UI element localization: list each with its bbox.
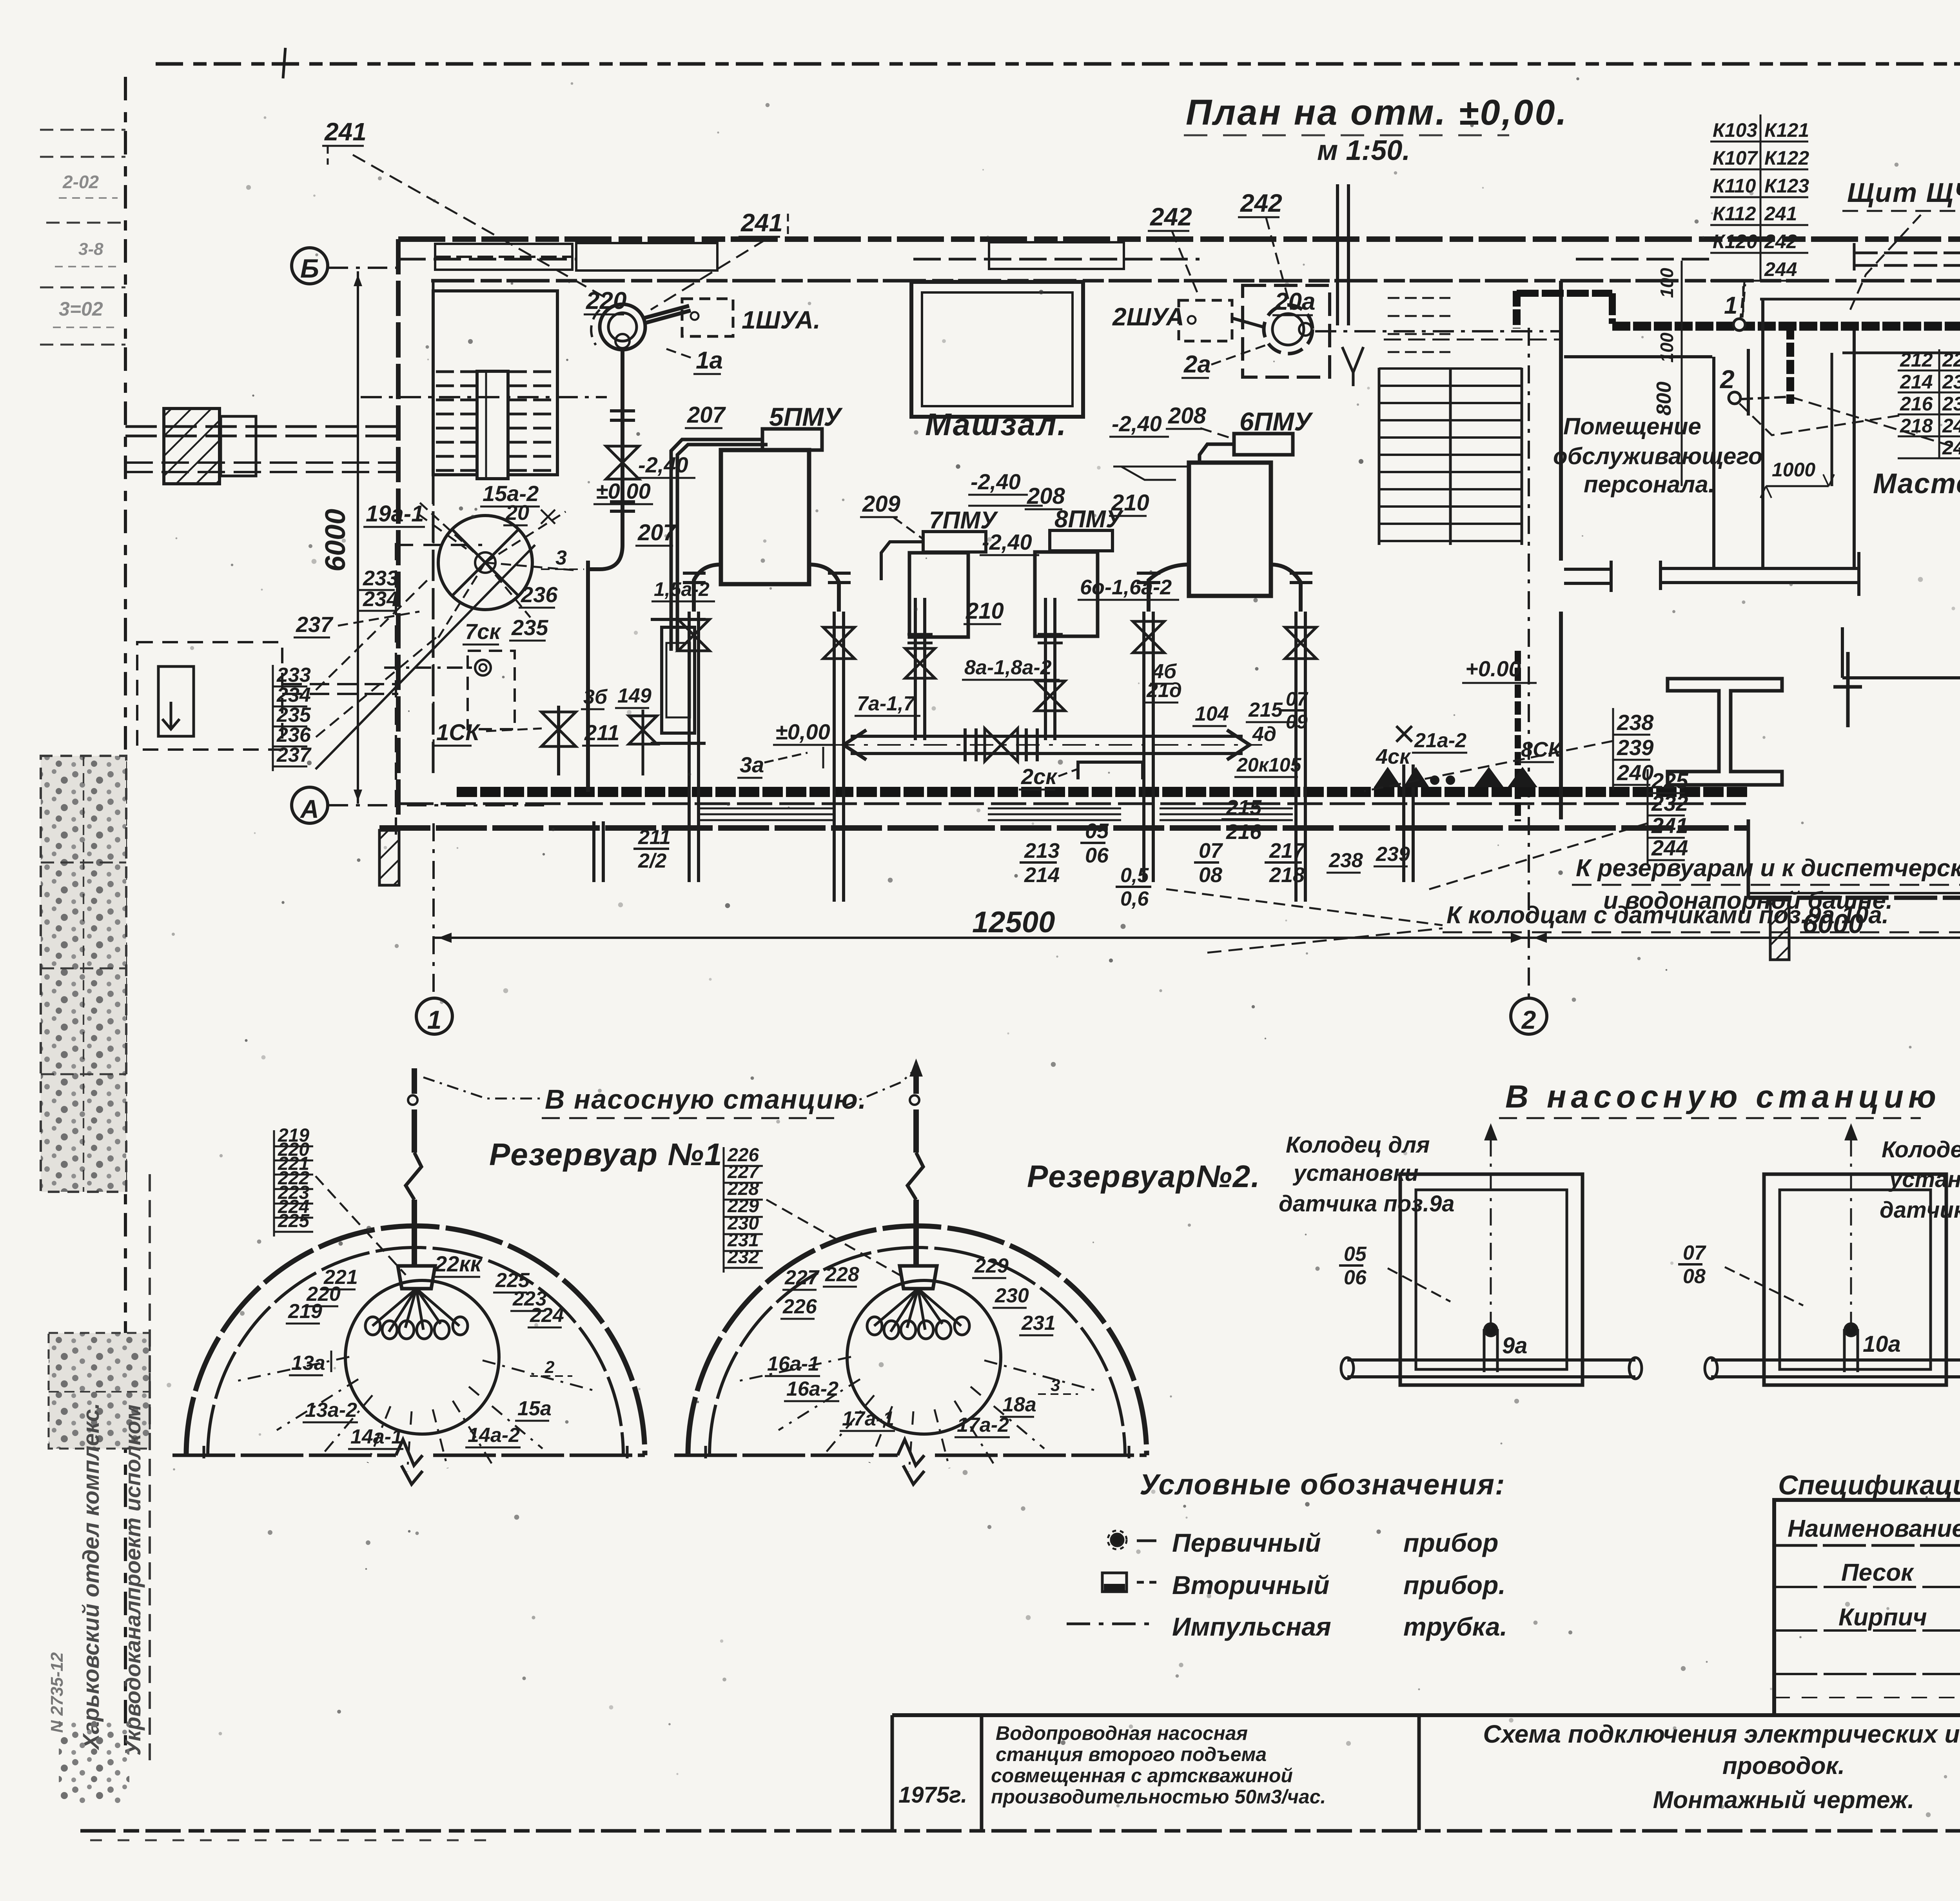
svg-text:2а: 2а: [1183, 351, 1211, 378]
pump5 discharge pipe: [671, 439, 762, 651]
reservoir outer shell arc: [186, 1226, 645, 1455]
manifold center line: [831, 744, 1262, 746]
svg-text:207: 207: [637, 520, 677, 545]
svg-text:3б: 3б: [583, 686, 608, 708]
reservoir outer shell arc: [688, 1226, 1147, 1455]
svg-text:прибор: прибор: [1403, 1528, 1498, 1557]
radial leaders from well: [417, 500, 485, 563]
svg-text:239: 239: [1376, 843, 1410, 866]
window room top-left: [433, 291, 557, 475]
leader junction1 to stack: [1742, 284, 1745, 318]
svg-text:Условные обозначения:: Условные обозначения:: [1140, 1468, 1506, 1501]
svg-text:А: А: [299, 794, 319, 823]
leader from 219 stack to hub: [316, 1176, 406, 1275]
solid leader to well circle: [316, 545, 535, 769]
column footings below walls right section: [1770, 900, 1789, 960]
workshop bottom wall: [1842, 676, 1960, 679]
pump8 riser to manifold: [1044, 598, 1047, 740]
radial impulse lines: [738, 1357, 851, 1381]
pump6 drain pipes down: [1142, 612, 1145, 882]
workshop window lines top right: [1854, 252, 1960, 254]
cable channel from skylight corner: [1520, 291, 1960, 325]
wall left interior: [432, 281, 435, 775]
svg-text:Песок: Песок: [1841, 1559, 1914, 1586]
valve 21а-2 cross: [1396, 726, 1412, 742]
sensor hub circle: [847, 1280, 1001, 1434]
svg-text:12500: 12500: [972, 906, 1055, 939]
svg-text:06: 06: [1085, 844, 1109, 867]
svg-text:±0,00: ±0,00: [596, 479, 651, 503]
svg-text:В насосную станцию.: В насосную станцию.: [545, 1084, 867, 1115]
svg-text:-2,40: -2,40: [971, 469, 1021, 494]
window sills bottom wall: [700, 808, 833, 810]
window bay bars top-left: [435, 244, 572, 270]
svg-text:2ШУА: 2ШУА: [1112, 303, 1184, 331]
svg-text:214: 214: [1900, 371, 1933, 393]
svg-text:4ск: 4ск: [1376, 745, 1411, 768]
pump 1a valve: [606, 446, 639, 479]
svg-text:Машзал.: Машзал.: [925, 407, 1067, 442]
arrow symbol in lower chamber: [162, 702, 180, 729]
svg-text:13а: 13а: [291, 1352, 325, 1374]
leader 225 stack: [1427, 823, 1648, 890]
svg-text:20к105: 20к105: [1236, 754, 1302, 776]
axis line 2: [1528, 328, 1530, 997]
svg-text:К120: К120: [1713, 231, 1757, 252]
svg-text:Монтажный чертеж.: Монтажный чертеж.: [1653, 1787, 1914, 1814]
pump6 discharge pipe: [1200, 444, 1234, 463]
well inner square: [1780, 1190, 1931, 1369]
right section upper room wall: [1842, 352, 1960, 354]
reservoir2 riser arrowhead: [909, 1059, 923, 1077]
well axis line with arrow: [1850, 1129, 1852, 1329]
well riser detail: [1483, 1329, 1486, 1372]
funnel below vent pipe: [1342, 347, 1363, 372]
svg-text:1СК: 1СК: [436, 720, 481, 745]
svg-text:21д: 21д: [1146, 679, 1182, 702]
svg-text:1а: 1а: [696, 347, 723, 374]
svg-text:Колодец для: Колодец для: [1882, 1137, 1960, 1162]
pump5 drain pipes down: [688, 612, 691, 882]
svg-text:208: 208: [1027, 483, 1065, 509]
wall top middle line: [398, 258, 576, 261]
svg-text:совмещенная с артскважиной: совмещенная с артскважиной: [991, 1765, 1293, 1787]
symbol 2ск bracket: [1078, 762, 1143, 779]
wall at 4497: [1761, 299, 1764, 568]
svg-text:14а-2: 14а-2: [468, 1424, 520, 1447]
svg-text:242: 242: [1764, 231, 1797, 252]
reservoir base chord: [674, 1454, 898, 1457]
pump unit 8 body: [1035, 552, 1098, 636]
legend secondary device symbol: [1102, 1573, 1127, 1592]
svg-text:+0.00: +0.00: [1465, 656, 1521, 681]
svg-text:16а-1: 16а-1: [767, 1353, 819, 1375]
cross wall near workshop: [1846, 652, 1850, 727]
svg-text:09: 09: [1286, 711, 1308, 733]
box 7ПМУ: [923, 532, 986, 552]
pump 2a housing rect 20a: [1243, 285, 1330, 377]
svg-text:Резервуар №1: Резервуар №1: [489, 1137, 722, 1172]
page frame top border: [156, 62, 1960, 66]
svg-text:232: 232: [1942, 371, 1960, 393]
radial impulse lines: [236, 1357, 349, 1381]
svg-text:Мастерская: Мастерская: [1873, 468, 1960, 499]
pump7 riser to manifold: [914, 598, 917, 740]
chord end ticks: [704, 1446, 707, 1458]
svg-text:07: 07: [1199, 839, 1223, 862]
svg-text:235: 235: [511, 615, 548, 640]
axis circle А: [292, 787, 328, 823]
svg-text:224: 224: [530, 1304, 564, 1327]
leaders from 233 stack: [316, 580, 427, 690]
svg-text:05: 05: [1344, 1243, 1367, 1266]
primary sensor circles: [365, 1317, 380, 1335]
page frame bottom border: [80, 1829, 1960, 1833]
pump 1a riser pipe: [621, 350, 624, 545]
svg-text:228: 228: [825, 1263, 859, 1286]
1СК dashed box: [468, 651, 515, 729]
page frame left border: [124, 77, 127, 1752]
svg-text:800: 800: [1653, 381, 1675, 416]
staff room bottom wall right segment: [1661, 567, 1859, 570]
svg-text:07: 07: [1286, 688, 1308, 710]
inlet pipes upper: [125, 425, 398, 428]
valve 1СК: [541, 712, 576, 746]
svg-text:225: 225: [1651, 768, 1688, 793]
staff room top wall: [1564, 355, 1712, 358]
svg-text:Первичный: Первичный: [1172, 1528, 1321, 1557]
chord break zigzag: [898, 1440, 924, 1484]
svg-text:9а: 9а: [1502, 1333, 1528, 1358]
svg-text:214: 214: [1024, 863, 1060, 887]
leader to res1 riser: [423, 1077, 543, 1098]
svg-text:трубка.: трубка.: [1403, 1612, 1507, 1641]
svg-text:Колодец для: Колодец для: [1286, 1132, 1430, 1158]
axis line 1: [432, 823, 435, 997]
svg-text:07: 07: [1683, 1242, 1706, 1264]
svg-text:149: 149: [617, 685, 652, 707]
svg-text:К121: К121: [1764, 119, 1809, 141]
inlet stub pipes to building: [282, 683, 398, 685]
drain pipe pair at 3593: [1402, 764, 1405, 882]
svg-text:243: 243: [1942, 437, 1960, 459]
overall dimension line 12500: [434, 937, 1529, 939]
svg-text:05: 05: [1085, 819, 1109, 843]
svg-text:239: 239: [1617, 735, 1653, 760]
svg-text:210: 210: [1111, 490, 1149, 516]
page frame tick at top left: [283, 48, 285, 78]
riser top circle: [910, 1095, 919, 1105]
svg-text:станция второго подъема: станция второго подъема: [996, 1743, 1267, 1765]
svg-text:Кирпич: Кирпич: [1838, 1604, 1927, 1631]
svg-text:Харьковский отдел комплекс.: Харьковский отдел комплекс.: [78, 1403, 104, 1750]
riser top circle: [408, 1095, 417, 1105]
svg-text:210: 210: [965, 598, 1004, 624]
svg-text:218: 218: [1900, 415, 1933, 437]
svg-text:215: 215: [1226, 796, 1262, 819]
svg-text:231: 231: [1021, 1312, 1056, 1335]
svg-text:18а: 18а: [1002, 1393, 1036, 1416]
svg-text:21а-2: 21а-2: [1414, 729, 1466, 752]
svg-text:242: 242: [1150, 203, 1192, 231]
primary device dots: [1430, 775, 1439, 785]
pump 1a flanges: [610, 409, 635, 412]
dark partition at 3872: [1515, 651, 1521, 821]
workshop left wall stub: [1747, 349, 1750, 416]
pump 1a lower flanges: [610, 500, 635, 503]
riser pipe: [412, 1200, 417, 1266]
svg-text:2: 2: [1521, 1005, 1536, 1034]
svg-text:К123: К123: [1764, 175, 1809, 197]
svg-text:212: 212: [1900, 349, 1933, 371]
box 6ПМУ: [1234, 434, 1293, 455]
svg-text:240: 240: [1942, 415, 1960, 437]
pump 1a leader to box: [643, 306, 689, 318]
svg-text:7а-1,7: 7а-1,7: [857, 692, 916, 715]
hub box: [398, 1266, 435, 1289]
svg-text:Наименование: Наименование: [1788, 1515, 1960, 1542]
svg-text:3а: 3а: [740, 752, 764, 777]
svg-text:Б: Б: [300, 254, 319, 283]
corridor wall vertical: [1853, 328, 1856, 568]
svg-text:226: 226: [782, 1295, 817, 1318]
svg-text:227: 227: [784, 1266, 820, 1289]
vent shaft in window room: [477, 371, 508, 479]
riser break symbol: [406, 1153, 421, 1200]
hub box: [900, 1266, 937, 1289]
svg-text:236: 236: [521, 582, 558, 607]
axis leader from А: [328, 804, 547, 806]
svg-text:100: 100: [1657, 268, 1677, 298]
second small valve: [629, 716, 657, 744]
svg-text:2/2: 2/2: [638, 850, 666, 872]
svg-text:100: 100: [1657, 332, 1677, 363]
leader from 212 stack: [1737, 401, 1899, 435]
reservoir inner shell arc: [208, 1247, 623, 1455]
svg-text:установки: установки: [1292, 1160, 1419, 1186]
staircase upper flight: [1388, 297, 1450, 299]
svg-text:Укрводоканалпроект исполком: Укрводоканалпроект исполком: [120, 1405, 145, 1756]
riser pipe: [913, 1200, 919, 1266]
footing left wall corner: [379, 830, 399, 885]
staff room right wall: [1712, 357, 1715, 568]
pump unit 6 body: [1189, 463, 1271, 596]
svg-text:229: 229: [974, 1255, 1009, 1277]
well riser detail: [1843, 1329, 1846, 1372]
chord break zigzag: [396, 1440, 423, 1484]
riser break symbol: [907, 1153, 923, 1200]
svg-text:218: 218: [1269, 863, 1305, 887]
svg-text:производительностью 50м3/час.: производительностью 50м3/час.: [991, 1786, 1326, 1808]
leader from 226 stack to hub2: [766, 1200, 902, 1276]
svg-text:14а-1: 14а-1: [350, 1425, 403, 1448]
well outer square: [1764, 1174, 1946, 1385]
svg-text:2: 2: [1719, 365, 1735, 394]
spec table row lines: [1774, 1586, 1960, 1588]
svg-text:215: 215: [1248, 699, 1283, 721]
dark vertical channel near 4567: [1786, 325, 1794, 404]
leader 241 to pump: [353, 155, 610, 300]
pump unit 5 body: [721, 450, 809, 584]
legend primary device text: [1137, 1540, 1156, 1542]
manifold flanges: [964, 728, 967, 761]
svg-text:0,5: 0,5: [1120, 864, 1149, 887]
svg-text:242: 242: [1240, 189, 1282, 217]
axis1 line inside building: [433, 325, 435, 772]
staff room bottom wall left segment: [1564, 568, 1611, 571]
svg-text:В насосную станцию: В насосную станцию: [1505, 1079, 1941, 1115]
svg-text:211: 211: [584, 720, 619, 745]
axis circle Б: [292, 248, 328, 284]
svg-text:К107: К107: [1713, 147, 1758, 169]
svg-text:7ск: 7ск: [465, 619, 501, 644]
svg-text:219: 219: [288, 1300, 322, 1323]
svg-text:Схема подключения электрически: Схема подключения электрических и трубны…: [1483, 1720, 1960, 1748]
corridor line right section: [1760, 298, 1960, 301]
title block frame: [892, 1713, 1960, 1717]
inlet hatch block: [164, 409, 220, 484]
svg-text:6о-1,6а-2: 6о-1,6а-2: [1080, 576, 1172, 599]
overall dimension line 6000 right: [1529, 937, 1960, 939]
svg-text:104: 104: [1195, 703, 1229, 725]
svg-text:13а-2: 13а-2: [305, 1399, 357, 1422]
svg-text:0,6: 0,6: [1120, 888, 1149, 910]
svg-text:238: 238: [1617, 710, 1654, 735]
svg-text:-2,40: -2,40: [1112, 411, 1162, 436]
svg-text:208: 208: [1168, 403, 1207, 428]
floor channel dark band: [457, 787, 1748, 797]
svg-text:К103: К103: [1713, 119, 1757, 141]
valve below pump5 left: [678, 619, 710, 651]
svg-text:233: 233: [363, 566, 398, 590]
valves below pump6: [1133, 621, 1164, 653]
machine hall skylight rect: [911, 282, 1083, 417]
primary sensor circles: [867, 1317, 882, 1335]
window bay rect above wall left: [576, 243, 717, 271]
svg-text:К колодцам с датчиками поз.9а,: К колодцам с датчиками поз.9а,10а.: [1446, 902, 1889, 929]
svg-text:08: 08: [1683, 1265, 1706, 1288]
svg-text:проводок.: проводок.: [1722, 1752, 1845, 1779]
hub fan lines: [372, 1289, 416, 1326]
spec table header row line: [1774, 1544, 1960, 1547]
scan dust specks: [942, 339, 946, 343]
spec table frame: [1774, 1500, 1960, 1715]
svg-text:1: 1: [427, 1005, 442, 1034]
device 8ск triangles: [1474, 767, 1504, 787]
sidebar stamp row lines: [40, 129, 125, 131]
pump 2a circle: [1264, 305, 1312, 354]
axis circle 1: [416, 998, 452, 1034]
wall bottom right section step: [1747, 819, 1750, 898]
vertical dimension line 6000: [357, 271, 359, 804]
svg-text:2: 2: [544, 1358, 555, 1377]
svg-text:Импульсная: Импульсная: [1172, 1612, 1331, 1641]
svg-text:2ск: 2ск: [1021, 764, 1058, 789]
legend secondary device text: [1137, 1581, 1156, 1584]
svg-text:установки: установки: [1888, 1167, 1960, 1192]
legend primary device symbol: [1111, 1534, 1123, 1546]
svg-text:К122: К122: [1764, 147, 1809, 169]
junction 1 node: [1733, 319, 1745, 330]
svg-text:211: 211: [638, 826, 671, 849]
I-beam structure in right section: [1668, 679, 1782, 785]
sensor hub circle: [345, 1280, 499, 1434]
sidebar lower speckle: [59, 1721, 129, 1803]
svg-text:1: 1: [1724, 292, 1737, 319]
svg-text:датчика поз.10а: датчика поз.10а: [1880, 1197, 1960, 1223]
reservoir inner shell arc: [710, 1247, 1125, 1455]
svg-text:209: 209: [862, 491, 900, 517]
svg-text:Водопроводная насосная: Водопроводная насосная: [996, 1722, 1248, 1744]
svg-text:Резервуар№2.: Резервуар№2.: [1027, 1159, 1260, 1194]
wall top exterior: [398, 236, 1960, 242]
svg-text:1,5а-2: 1,5а-2: [654, 578, 710, 600]
svg-text:3=02: 3=02: [59, 298, 103, 320]
svg-text:237: 237: [296, 612, 334, 637]
leader 238 stack to device: [1364, 741, 1613, 791]
leader 241-2: [651, 239, 766, 310]
svg-text:241: 241: [740, 209, 783, 237]
svg-text:обслуживающего: обслуживающего: [1553, 443, 1763, 469]
well axis line with arrow: [1490, 1129, 1492, 1329]
staircase: [1378, 368, 1381, 545]
pump7 riser: [881, 542, 923, 580]
vertical channel line К103 stack to junction: [1742, 286, 1744, 317]
svg-text:6000: 6000: [320, 509, 351, 572]
svg-text:К112: К112: [1713, 203, 1756, 225]
sidebar lower stamp block: [49, 1333, 150, 1449]
svg-text:5ПМУ: 5ПМУ: [769, 402, 843, 431]
svg-text:8а-1,8а-2: 8а-1,8а-2: [964, 656, 1052, 679]
leader to К колодцам: [1207, 928, 1443, 953]
strainer 1,5а-2 casing: [662, 627, 695, 733]
well outer square: [1400, 1174, 1583, 1385]
svg-text:±0,00: ±0,00: [775, 719, 830, 744]
svg-text:207: 207: [687, 402, 726, 428]
svg-text:19а-1: 19а-1: [366, 501, 424, 527]
svg-text:Щит ЩЧК: Щит ЩЧК: [1847, 177, 1960, 208]
main cable run to ЩСУ: [1612, 322, 1960, 331]
svg-text:17а-1: 17а-1: [842, 1407, 894, 1430]
axis circle 2: [1511, 998, 1547, 1034]
svg-text:К резервуарам и к диспетчерско: К резервуарам и к диспетчерскому: [1576, 855, 1960, 882]
svg-text:3: 3: [555, 547, 567, 569]
pump 1a circle: [600, 304, 645, 350]
svg-text:м 1:50.: м 1:50.: [1317, 135, 1410, 166]
svg-text:16а-2: 16а-2: [786, 1378, 838, 1400]
svg-text:1ШУА.: 1ШУА.: [742, 306, 820, 334]
main manifold pipe: [851, 735, 1243, 738]
svg-text:прибор.: прибор.: [1403, 1571, 1506, 1600]
svg-text:6ПМУ: 6ПМУ: [1240, 407, 1313, 436]
svg-text:225: 225: [278, 1211, 310, 1231]
staff room dimension lines: [1681, 261, 1683, 486]
pump6 suction elbows: [1149, 565, 1189, 612]
svg-text:225: 225: [1942, 349, 1960, 371]
svg-text:213: 213: [1024, 839, 1060, 862]
reservoir base chord: [172, 1454, 396, 1457]
legend impulse tube symbol: [1067, 1623, 1152, 1625]
leader Щит ЩЧК: [1850, 215, 1921, 310]
svg-text:217: 217: [1269, 839, 1306, 862]
junction 2 node: [1729, 392, 1740, 404]
svg-text:232: 232: [1651, 791, 1688, 815]
axis leader from Б: [328, 267, 397, 269]
box 5ПМУ: [762, 429, 822, 450]
box 8ПМУ: [1050, 530, 1112, 551]
interior wall machine hall / staff rooms: [1559, 281, 1563, 561]
svg-text:234: 234: [363, 587, 398, 611]
